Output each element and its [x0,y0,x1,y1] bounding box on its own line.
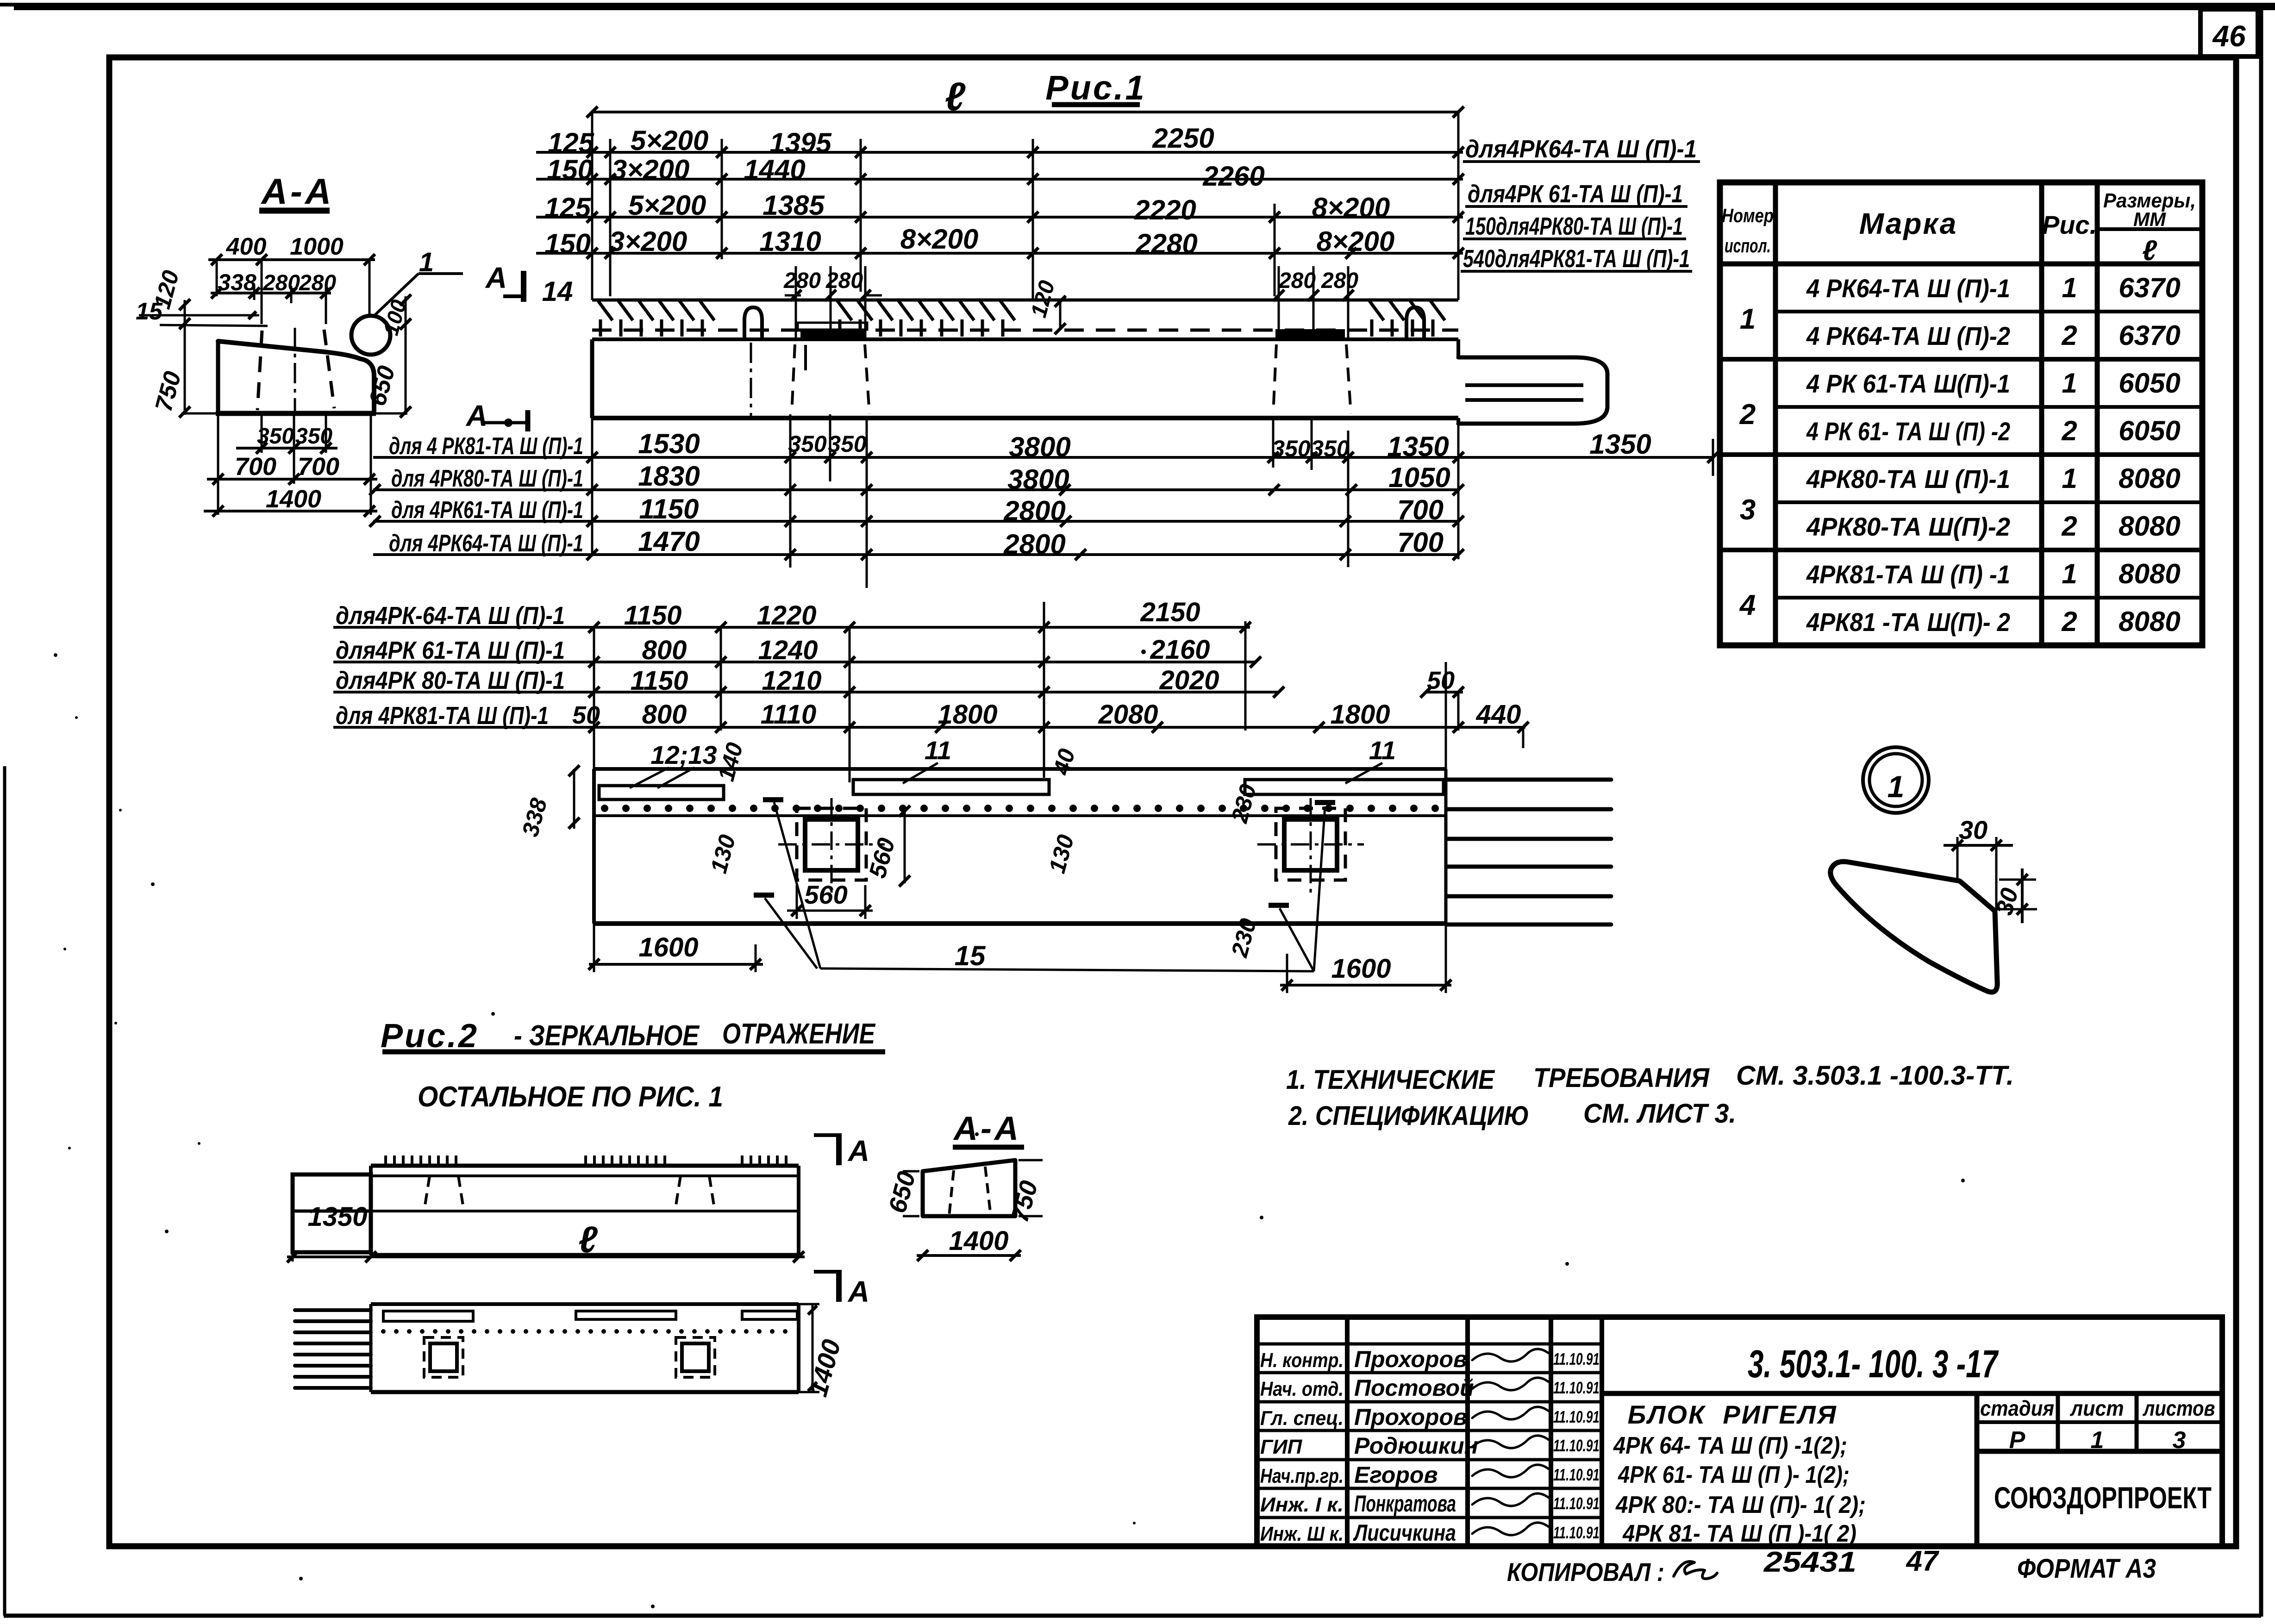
svg-text:4РК 80:- ТА Ш (П)- 1( 2);: 4РК 80:- ТА Ш (П)- 1( 2); [1615,1492,1866,1518]
svg-text:14: 14 [542,276,573,307]
svg-text:1110: 1110 [761,700,816,730]
svg-text:Постовой: Постовой [1354,1375,1474,1401]
svg-text:800: 800 [642,635,687,665]
svg-text:11.10.91: 11.10.91 [1553,1523,1600,1542]
svg-text:листов: листов [2143,1396,2215,1420]
svg-text:1395: 1395 [769,127,832,158]
svg-text:1350: 1350 [307,1202,367,1232]
svg-text:1440: 1440 [744,154,805,185]
svg-text:350: 350 [295,424,332,449]
svg-text:125: 125 [544,192,592,223]
svg-text:5×200: 5×200 [628,190,706,221]
svg-text:А: А [485,261,507,294]
svg-text:4РК 81- ТА Ш (П )-1( 2): 4РК 81- ТА Ш (П )-1( 2) [1622,1520,1856,1547]
svg-text:БЛОК: БЛОК [1628,1400,1706,1429]
svg-text:4 РК64-ТА Ш (П)-2: 4 РК64-ТА Ш (П)-2 [1806,321,2010,350]
svg-text:Лисичкина: Лисичкина [1353,1520,1456,1546]
svg-text:11: 11 [1369,736,1396,765]
svg-text:4 РК 61- ТА Ш (П) -2: 4 РК 61- ТА Ш (П) -2 [1806,417,2010,446]
svg-text:1150: 1150 [631,666,688,696]
svg-text:2250: 2250 [1152,123,1214,154]
svg-text:1: 1 [2062,272,2077,303]
svg-text:1: 1 [2091,1427,2104,1454]
svg-text:2: 2 [2061,320,2077,351]
svg-text:4 РК64-ТА Ш (П)-1: 4 РК64-ТА Ш (П)-1 [1806,274,2010,303]
svg-text:8×200: 8×200 [1312,192,1390,223]
svg-text:испол.: испол. [1725,235,1771,256]
svg-text:25431: 25431 [1763,1546,1856,1578]
svg-text:8×200: 8×200 [900,224,979,255]
svg-text:для4РК 80-ТА Ш (П)-1: для4РК 80-ТА Ш (П)-1 [336,667,565,694]
svg-text:350: 350 [257,424,294,449]
svg-text:6370: 6370 [2119,272,2180,303]
svg-text:Номер: Номер [1722,205,1774,226]
svg-text:СМ. ЛИСТ 3.: СМ. ЛИСТ 3. [1583,1099,1736,1129]
svg-text:350: 350 [1272,436,1311,462]
svg-text:11.10.91: 11.10.91 [1553,1407,1600,1426]
svg-text:1830: 1830 [638,461,700,492]
svg-text:350: 350 [788,431,827,457]
svg-text:4 РК 61-ТА Ш(П)-1: 4 РК 61-ТА Ш(П)-1 [1806,369,2010,398]
svg-text:4РК80-ТА Ш(П)-2: 4РК80-ТА Ш(П)-2 [1806,512,2010,541]
svg-text:15: 15 [955,940,986,971]
svg-text:1800: 1800 [937,700,997,730]
svg-text:1. ТЕХНИЧЕСКИЕ: 1. ТЕХНИЧЕСКИЕ [1286,1065,1495,1095]
svg-text:ТРЕБОВАНИЯ: ТРЕБОВАНИЯ [1533,1063,1710,1093]
svg-text:Инж. I к.: Инж. I к. [1260,1493,1344,1516]
svg-text:3: 3 [2173,1427,2186,1454]
svg-text:ГИП: ГИП [1260,1436,1303,1458]
svg-text:1470: 1470 [638,526,700,557]
svg-text:11.10.91: 11.10.91 [1553,1436,1600,1455]
svg-text:2080: 2080 [1098,700,1158,730]
svg-text:- ЗЕРКАЛЬНОЕ: - ЗЕРКАЛЬНОЕ [514,1020,700,1052]
svg-text:700: 700 [298,453,339,481]
svg-text:6050: 6050 [2119,415,2180,446]
svg-text:Марка: Марка [1859,207,1958,240]
svg-text:125: 125 [548,127,595,158]
svg-text:540для4РК81-ТА Ш (П)-1: 540для4РК81-ТА Ш (П)-1 [1463,245,1690,273]
svg-text:А: А [847,1134,869,1168]
svg-text:15: 15 [136,298,163,325]
svg-text:Нач. отд.: Нач. отд. [1260,1378,1344,1400]
svg-text:1385: 1385 [762,190,825,221]
svg-text:6370: 6370 [2119,320,2180,351]
svg-text:8080: 8080 [2119,606,2180,637]
svg-text:150: 150 [544,228,591,259]
svg-text:2150: 2150 [1140,597,1200,627]
svg-text:47: 47 [1906,1545,1939,1577]
svg-text:ОТРАЖЕНИЕ: ОТРАЖЕНИЕ [722,1018,875,1050]
svg-text:2160: 2160 [1150,635,1210,665]
svg-text:11.10.91: 11.10.91 [1553,1349,1600,1368]
svg-text:для 4РК81-ТА Ш (П)-1: для 4РК81-ТА Ш (П)-1 [336,702,549,730]
svg-text:лист: лист [2070,1396,2124,1420]
svg-text:12;13: 12;13 [650,740,717,769]
svg-text:1000: 1000 [290,233,344,260]
svg-text:для 4РК61-ТА Ш (П)-1: для 4РК61-ТА Ш (П)-1 [391,497,583,524]
svg-text:4: 4 [1739,589,1756,621]
svg-text:2020: 2020 [1159,665,1219,695]
svg-text:ФОРМАТ А3: ФОРМАТ А3 [2017,1554,2156,1584]
svg-text:Н. контр.: Н. контр. [1260,1349,1344,1372]
svg-text:11.10.91: 11.10.91 [1553,1465,1600,1484]
svg-text:ℓ: ℓ [578,1219,598,1260]
svg-text:1400: 1400 [266,485,321,513]
svg-text:Рис.1: Рис.1 [1045,69,1146,107]
svg-text:800: 800 [642,700,687,730]
svg-text:2: 2 [2061,511,2077,542]
svg-text:для 4 РК81-ТА Ш (П)-1: для 4 РК81-ТА Ш (П)-1 [389,433,583,460]
svg-text:2: 2 [1739,399,1756,431]
svg-text:700: 700 [235,453,276,481]
svg-text:350: 350 [1311,436,1350,462]
svg-text:3800: 3800 [1009,431,1070,462]
svg-text:50: 50 [572,701,600,729]
svg-text:2: 2 [2061,415,2077,446]
svg-text:Прохоров: Прохоров [1354,1346,1467,1372]
svg-text:400: 400 [226,233,267,260]
svg-text:700: 700 [1397,494,1444,525]
svg-text:для4РК 61-ТА Ш (П)-1: для4РК 61-ТА Ш (П)-1 [1468,180,1683,208]
svg-text:Прохоров: Прохоров [1354,1404,1467,1430]
svg-text:50: 50 [1427,667,1455,694]
svg-text:1220: 1220 [756,600,816,631]
svg-text:стадия: стадия [1980,1396,2054,1420]
svg-text:3: 3 [1740,494,1756,526]
svg-text:3×200: 3×200 [609,226,687,257]
svg-text:1400: 1400 [949,1226,1008,1256]
svg-text:А: А [847,1275,869,1308]
svg-text:1: 1 [2062,558,2077,589]
svg-text:Егоров: Егоров [1354,1462,1438,1488]
svg-text:2. СПЕЦИФИКАЦИЮ: 2. СПЕЦИФИКАЦИЮ [1288,1101,1529,1131]
svg-text:4РК81 -ТА Ш(П)- 2: 4РК81 -ТА Ш(П)- 2 [1806,607,2010,637]
svg-text:1150: 1150 [624,600,682,631]
svg-text:СМ. 3.503.1 -100.3-ТТ.: СМ. 3.503.1 -100.3-ТТ. [1736,1061,2014,1091]
svg-text:А: А [465,399,487,432]
svg-text:8080: 8080 [2119,558,2180,589]
svg-text:350: 350 [828,431,867,457]
svg-text:1: 1 [2062,463,2077,494]
svg-text:440: 440 [1476,700,1521,730]
svg-text:Гл. спец.: Гл. спец. [1260,1407,1344,1430]
svg-text:для 4РК64-ТА Ш (П)-1: для 4РК64-ТА Ш (П)-1 [389,530,583,557]
svg-text:ОСТАЛЬНОЕ ПО РИС. 1: ОСТАЛЬНОЕ ПО РИС. 1 [418,1081,723,1113]
svg-text:8080: 8080 [2119,463,2180,494]
svg-text:1310: 1310 [759,226,821,257]
svg-text:для4РК 61-ТА Ш (П)-1: для4РК 61-ТА Ш (П)-1 [336,637,565,664]
svg-text:КОПИРОВАЛ :: КОПИРОВАЛ : [1507,1557,1664,1587]
svg-text:46: 46 [2212,19,2246,53]
svg-text:2800: 2800 [1003,495,1065,526]
svg-text:700: 700 [1397,527,1444,558]
svg-text:1050: 1050 [1388,462,1450,493]
svg-text:1600: 1600 [1331,954,1391,984]
svg-text:Рис.2: Рис.2 [381,1018,479,1055]
svg-text:3800: 3800 [1007,464,1069,495]
svg-text:4РК 64- ТА Ш (П) -1(2);: 4РК 64- ТА Ш (П) -1(2); [1613,1432,1847,1459]
svg-text:Рис.: Рис. [2042,210,2097,239]
svg-text:11.10.91: 11.10.91 [1553,1378,1600,1397]
svg-text:А-А: А-А [953,1110,1021,1147]
svg-text:1350: 1350 [1387,431,1449,462]
svg-text:А-А: А-А [261,171,334,212]
svg-text:Р: Р [2009,1427,2025,1454]
svg-text:ММ: ММ [2133,208,2166,230]
svg-text:РИГЕЛЯ: РИГЕЛЯ [1723,1400,1837,1429]
svg-text:11: 11 [925,736,951,765]
svg-text:280: 280 [1278,269,1316,293]
svg-text:8×200: 8×200 [1317,226,1395,257]
svg-text:2800: 2800 [1003,529,1065,560]
svg-text:2: 2 [2061,606,2077,637]
svg-text:1600: 1600 [638,932,698,962]
svg-text:3. 503.1- 100. 3 -17: 3. 503.1- 100. 3 -17 [1748,1342,1999,1386]
svg-text:2280: 2280 [1135,228,1197,259]
svg-text:3×200: 3×200 [612,154,690,185]
svg-text:280: 280 [783,269,821,293]
svg-text:1150: 1150 [639,493,699,525]
svg-text:для4РК64-ТА Ш (П)-1: для4РК64-ТА Ш (П)-1 [1465,135,1697,163]
svg-text:338: 338 [218,269,256,295]
svg-text:для 4РК80-ТА Ш (П)-1: для 4РК80-ТА Ш (П)-1 [391,465,583,492]
svg-text:1: 1 [1887,769,1905,804]
svg-text:150для4РК80-ТА Ш (П)-1: 150для4РК80-ТА Ш (П)-1 [1465,212,1683,240]
svg-text:4РК81-ТА Ш (П) -1: 4РК81-ТА Ш (П) -1 [1806,560,2010,589]
svg-text:1210: 1210 [762,666,821,696]
svg-text:1350: 1350 [1589,429,1651,460]
svg-text:6050: 6050 [2119,368,2180,399]
svg-text:Понкратова: Понкратова [1354,1491,1456,1517]
svg-text:Инж. Ш к.: Инж. Ш к. [1260,1523,1344,1545]
svg-text:560: 560 [804,880,847,909]
svg-text:1240: 1240 [758,635,818,665]
svg-text:8080: 8080 [2119,511,2180,542]
svg-text:11.10.91: 11.10.91 [1553,1494,1600,1513]
svg-text:1: 1 [2062,368,2077,399]
svg-text:1800: 1800 [1330,700,1390,730]
svg-text:СОЮЗДОРПРОЕКТ: СОЮЗДОРПРОЕКТ [1994,1480,2212,1515]
svg-text:1530: 1530 [638,428,700,459]
svg-text:4РК 61- ТА Ш (П )- 1(2);: 4РК 61- ТА Ш (П )- 1(2); [1618,1462,1850,1488]
svg-text:150: 150 [547,154,593,185]
svg-text:Нач.пр.гр.: Нач.пр.гр. [1260,1465,1344,1487]
svg-text:5×200: 5×200 [631,125,709,156]
svg-text:Родюшкин: Родюшкин [1354,1433,1478,1459]
svg-text:для4РК-64-ТА Ш (П)-1: для4РК-64-ТА Ш (П)-1 [336,602,565,630]
svg-text:2260: 2260 [1202,161,1264,192]
svg-text:4РК80-ТА Ш (П)-1: 4РК80-ТА Ш (П)-1 [1806,464,2010,493]
svg-text:2220: 2220 [1134,194,1196,225]
svg-text:1: 1 [1740,303,1756,335]
svg-text:ℓ: ℓ [2142,235,2157,267]
